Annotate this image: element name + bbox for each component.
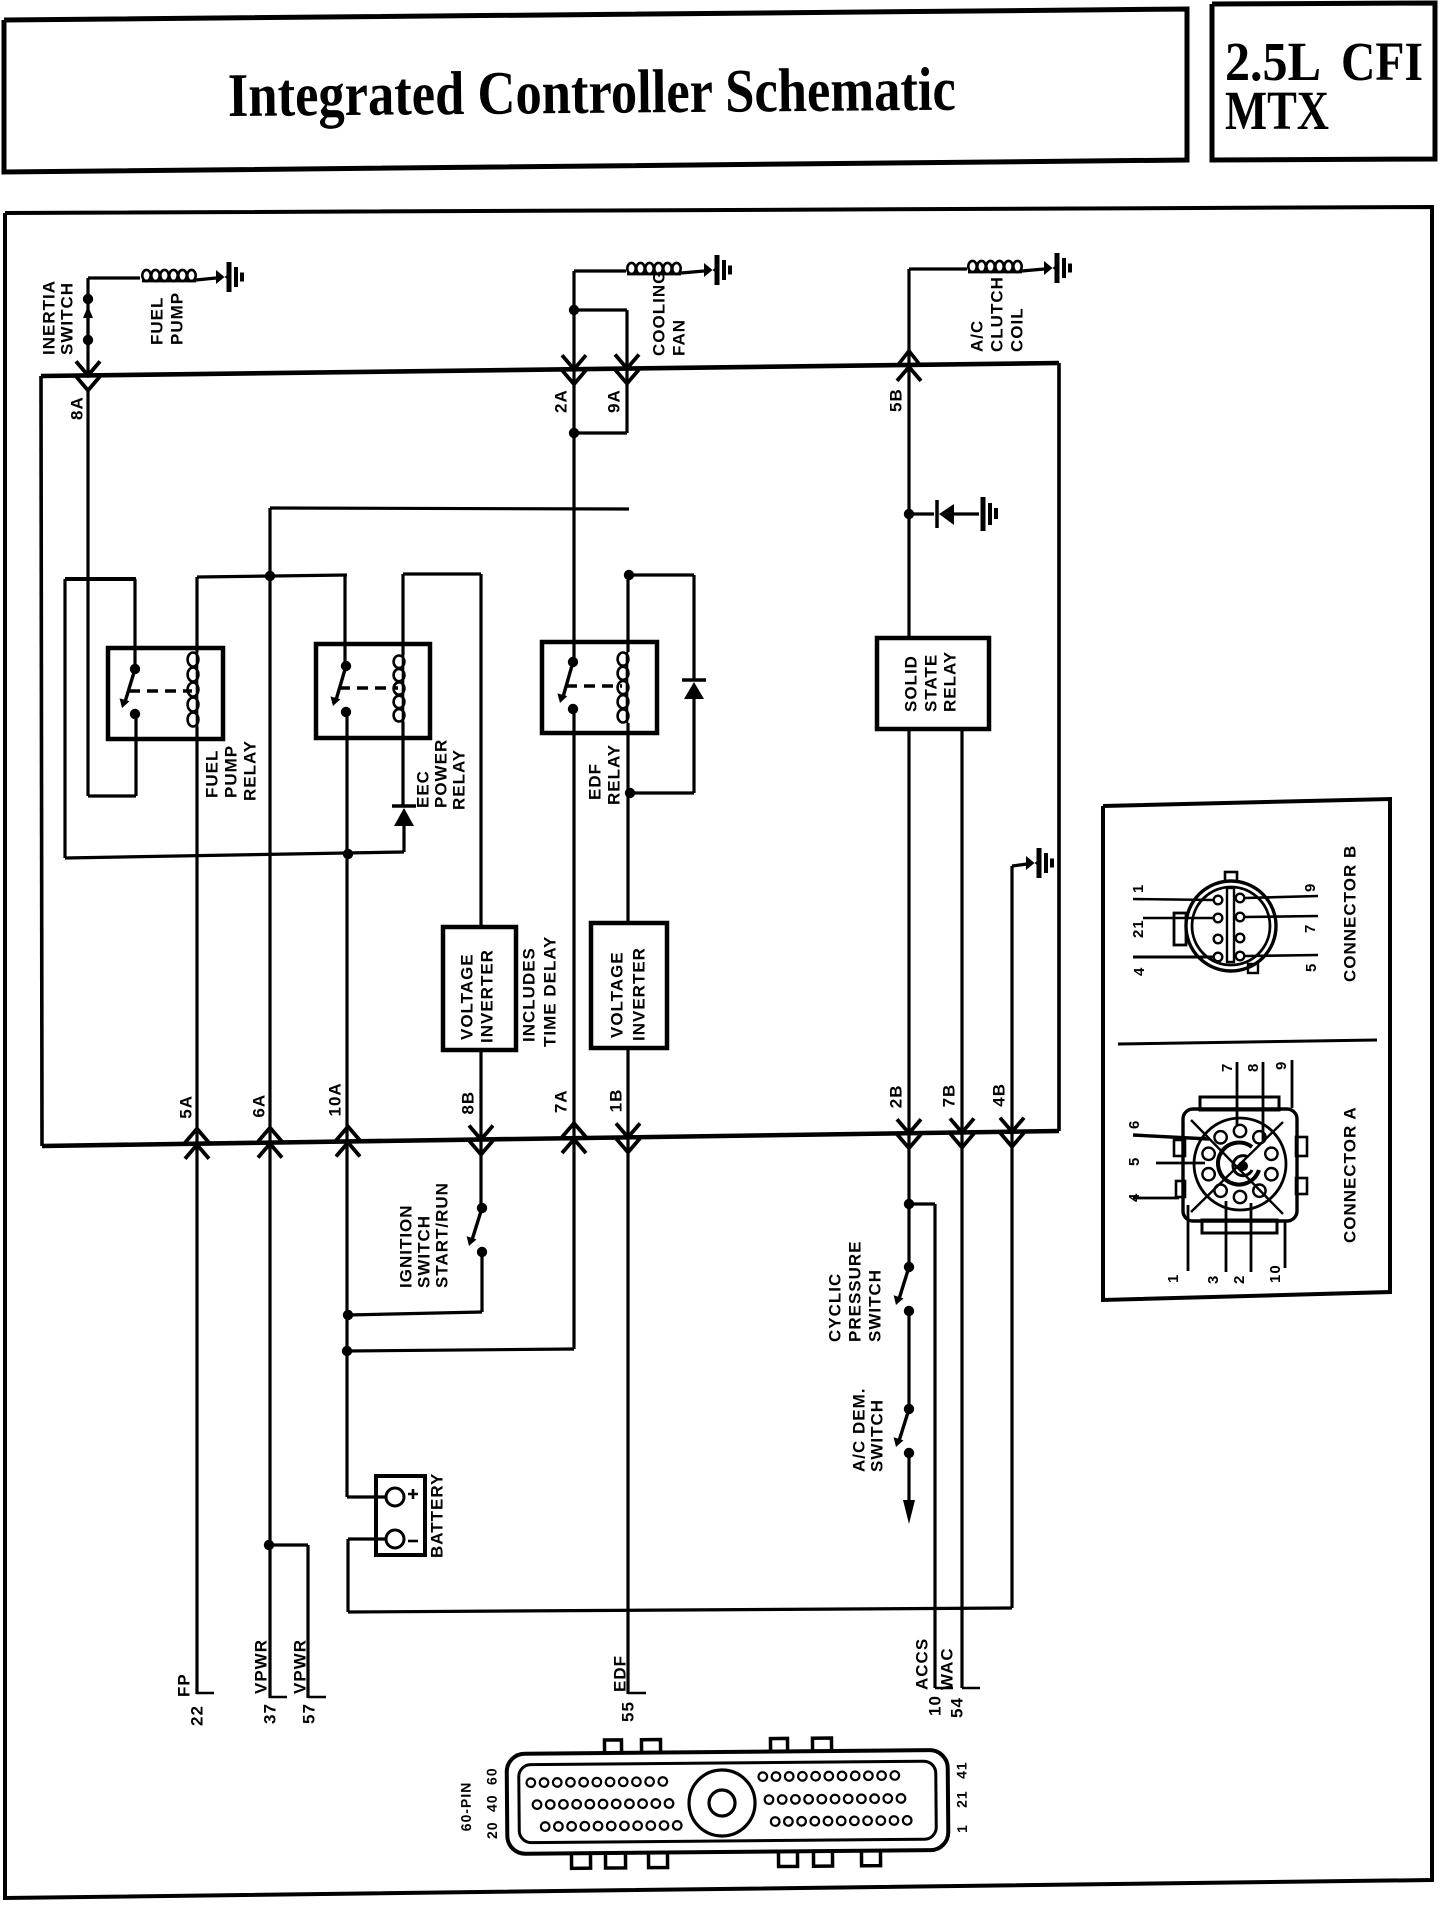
node 8A arrows [76, 361, 100, 375]
node junction ignition-10A [343, 1310, 353, 1320]
svg-text:10: 10 [1267, 1264, 1284, 1283]
connector B key bar [1227, 888, 1234, 962]
svg-text:STATE: STATE [921, 654, 940, 712]
wire EEC coil top riser [401, 574, 404, 655]
connector B bottom notch [1248, 964, 1258, 973]
relay K3 switch [568, 657, 578, 667]
battery box [376, 1476, 425, 1555]
diode D3 [939, 504, 954, 525]
connector A side tabs [1174, 1140, 1185, 1156]
wire inverter2 out 1B EDF [626, 1048, 629, 1694]
wire 5A continue down FP [195, 1144, 198, 1694]
version box [1212, 3, 1435, 160]
svg-text:54: 54 [947, 1697, 966, 1718]
ground diode [981, 497, 986, 531]
wire ignition bottom [480, 1252, 483, 1312]
connector B outer rings [1186, 881, 1276, 971]
title box [4, 9, 1187, 172]
svg-text:Integrated Controller Schemati: Integrated Controller Schematic [228, 56, 957, 130]
node junction EDF coil top [624, 570, 634, 580]
connector B top tab [1225, 872, 1237, 881]
ground fuel pump [216, 270, 227, 284]
connector detail divider [1118, 1040, 1377, 1044]
connector B left tab [1174, 913, 1186, 945]
wire EDF common down 7A [572, 709, 575, 1349]
wire cyclic to a/c demand [907, 1311, 910, 1409]
svg-text:VOLTAGE: VOLTAGE [457, 953, 476, 1040]
ignition switch [477, 1203, 487, 1213]
wire diode bottom link [630, 791, 694, 794]
wire FP coil to bus 5A [195, 727, 198, 1144]
svg-text:21: 21 [1130, 919, 1147, 938]
node 2B arrows [897, 1119, 921, 1133]
svg-text:COIL: COIL [1007, 307, 1026, 352]
svg-text:SWITCH: SWITCH [865, 1269, 884, 1342]
relay K1 dashed link [129, 689, 192, 692]
connector A pins [1234, 1125, 1246, 1137]
svg-text:CYCLIC: CYCLIC [825, 1273, 844, 1342]
node 7B arrows [950, 1118, 974, 1132]
wire net-B to EDF coil horizontal [270, 508, 629, 509]
60-pin connector bottom tabs [571, 1852, 590, 1868]
svg-text:VPWR: VPWR [290, 1639, 309, 1694]
relay K3 coil [618, 653, 629, 666]
wire cooling fan vertical 2A [572, 271, 575, 662]
svg-text:SWITCH: SWITCH [57, 282, 76, 355]
node junction EEC common [343, 849, 353, 859]
relay K2 switch [341, 661, 351, 671]
diode D2 [682, 678, 706, 682]
node junction 7A-10A [342, 1346, 352, 1356]
svg-text:PUMP: PUMP [167, 292, 186, 345]
ground 4B [1026, 856, 1037, 870]
wire net-B horizontal [197, 575, 347, 577]
connector B pin lines left [1133, 899, 1213, 900]
svg-text:IGNITION: IGNITION [396, 1204, 415, 1288]
svg-text:5A: 5A [176, 1095, 195, 1119]
wire EDF coil junction to diode branch [629, 573, 694, 576]
node junction net-B [265, 571, 275, 581]
svg-text:20: 20 [484, 1821, 500, 1839]
relay K3 dashed link [566, 684, 622, 687]
svg-text:1: 1 [954, 1824, 970, 1833]
node junction VPWR split [264, 1540, 274, 1550]
ground cooling fan [704, 263, 715, 277]
cyclic pressure switch [904, 1262, 914, 1272]
wire 2A-9A top link [574, 308, 627, 311]
relay K1 coil [188, 653, 199, 667]
wire 7A to battery link [347, 1349, 574, 1351]
svg-text:TIME DELAY: TIME DELAY [540, 936, 559, 1047]
svg-text:22: 22 [187, 1705, 206, 1726]
svg-text:7: 7 [1219, 1063, 1236, 1072]
node 5A arrows [185, 1129, 209, 1143]
connector A inner spiral [1218, 1143, 1259, 1185]
svg-text:10A: 10A [325, 1082, 344, 1116]
svg-text:9: 9 [1302, 883, 1319, 892]
svg-text:MTX: MTX [1225, 80, 1329, 141]
wire FP coil top [195, 577, 198, 652]
wire FP relay NO loop top [65, 577, 136, 581]
wire net-A left vertical [63, 579, 66, 858]
svg-text:BATTERY: BATTERY [427, 1473, 446, 1558]
wire net-A bottom horizontal [65, 852, 404, 858]
svg-text:FUEL: FUEL [147, 297, 166, 345]
svg-text:POWER: POWER [431, 739, 450, 808]
relay K2 coil [394, 656, 405, 668]
relay K3 EDF relay box [542, 642, 657, 733]
svg-text:1: 1 [1165, 1274, 1182, 1283]
wire coil to ground [1022, 269, 1044, 271]
wire 4B ground link [1012, 864, 1027, 866]
controller box bottom bus [42, 1131, 1059, 1146]
wire battery negative [348, 1537, 386, 1540]
connector B pins [1214, 896, 1223, 905]
node 9A arrows [615, 355, 639, 369]
svg-text:FP: FP [174, 1673, 193, 1697]
svg-text:CONNECTOR B: CONNECTOR B [1340, 845, 1359, 982]
node 10A arrows [336, 1126, 360, 1140]
relay U1 solid state relay box [877, 638, 989, 729]
svg-text:40: 40 [484, 1794, 500, 1812]
node 5B arrows [898, 351, 920, 365]
svg-text:CLUTCH: CLUTCH [987, 276, 1006, 352]
svg-text:EDF: EDF [610, 1655, 629, 1692]
svg-text:RELAY: RELAY [940, 651, 959, 712]
60-pin connector center ring [689, 1770, 756, 1837]
connector detail box [1103, 799, 1390, 1300]
svg-text:57: 57 [299, 1703, 318, 1724]
svg-text:RELAY: RELAY [604, 744, 623, 805]
wire EEC coil top to inverter [403, 572, 481, 575]
svg-text:VPWR: VPWR [251, 1639, 270, 1694]
svg-text:FAN: FAN [669, 319, 688, 356]
connector A cross lines [1191, 1120, 1283, 1214]
svg-text:4B: 4B [989, 1083, 1008, 1107]
wire 2A-9A bottom link [574, 431, 627, 434]
fuel pump coil [142, 270, 150, 281]
svg-text:INCLUDES: INCLUDES [519, 947, 538, 1042]
svg-text:CONNECTOR A: CONNECTOR A [1340, 1106, 1359, 1243]
wire 9A vertical [625, 310, 628, 433]
svg-text:6: 6 [1126, 1120, 1143, 1129]
svg-text:EEC: EEC [413, 770, 432, 808]
connector A top tab [1200, 1097, 1279, 1110]
inertia switch [83, 294, 93, 304]
svg-text:SWITCH: SWITCH [414, 1215, 433, 1288]
wire fuel pump feed [88, 276, 140, 279]
svg-text:2A: 2A [551, 389, 570, 413]
svg-text:START/RUN: START/RUN [432, 1182, 451, 1288]
svg-text:5: 5 [1303, 963, 1320, 972]
battery - terminal [386, 1530, 404, 1548]
relay K1 fuel pump relay box [108, 648, 223, 739]
wire diode to junction [402, 826, 405, 852]
controller box top bus [41, 363, 1059, 376]
svg-text:INVERTER: INVERTER [629, 947, 648, 1041]
wire SSR out 2B [907, 729, 910, 1262]
svg-text:RELAY: RELAY [449, 749, 468, 810]
node junction EDF coil bottom [625, 788, 635, 798]
relay K1 switch [130, 664, 140, 674]
svg-text:INVERTER: INVERTER [477, 949, 496, 1043]
battery + terminal [386, 1488, 404, 1506]
node 8B arrows [469, 1126, 493, 1140]
wire EEC coil bottom to diode [401, 722, 404, 806]
svg-text:4: 4 [1131, 967, 1148, 976]
svg-text:SWITCH: SWITCH [867, 1399, 886, 1472]
wire 4B vertical [1010, 866, 1013, 1608]
svg-text:EDF: EDF [585, 763, 604, 800]
node junction 2A/9A bottom [569, 428, 579, 438]
wire battery positive [347, 1495, 386, 1498]
wire a/c clutch feed [909, 267, 967, 270]
wire battery negative to 4B [348, 1608, 1012, 1612]
svg-text:CFI: CFI [1341, 31, 1423, 92]
svg-text:A/C DEM.: A/C DEM. [849, 1388, 868, 1473]
svg-text:A/C: A/C [967, 320, 986, 352]
svg-text:5: 5 [1126, 1157, 1143, 1166]
svg-text:4: 4 [1126, 1193, 1143, 1202]
svg-text:1B: 1B [606, 1089, 625, 1113]
node 1B arrows [616, 1123, 640, 1137]
svg-text:8A: 8A [67, 396, 86, 420]
svg-text:7B: 7B [939, 1084, 958, 1108]
wire EDF coil top riser [626, 575, 629, 652]
wire diode D2 branch lower [692, 699, 695, 793]
svg-text:VOLTAGE: VOLTAGE [607, 951, 626, 1038]
wire inverter1 out 8B [479, 1050, 482, 1208]
node junction ACCS branch [904, 1199, 914, 1209]
wire EEC common down 10A [345, 712, 348, 1497]
wire 8A to FP common [86, 388, 89, 796]
svg-text:6A: 6A [249, 1094, 268, 1118]
svg-text:21: 21 [954, 1790, 970, 1808]
wire FP NO vertical [133, 579, 136, 669]
svg-text:1: 1 [1130, 884, 1147, 893]
svg-text:9: 9 [1273, 1061, 1290, 1070]
node 6A arrows [258, 1128, 282, 1142]
svg-text:SOLID: SOLID [901, 655, 920, 712]
svg-text:FUEL: FUEL [202, 750, 221, 798]
wire coil to ground [681, 271, 704, 273]
svg-text:8: 8 [1245, 1063, 1262, 1072]
connector A pin lines [1133, 1135, 1209, 1139]
wire a/c demand out arrow [907, 1453, 910, 1502]
svg-text:PRESSURE: PRESSURE [845, 1240, 864, 1342]
60-pin connector body [507, 1750, 949, 1854]
controller box right edge [1057, 363, 1061, 1131]
svg-text:ACCS: ACCS [912, 1638, 931, 1690]
controller box left edge [41, 376, 42, 1146]
connector A body [1183, 1109, 1297, 1221]
a/c demand switch [904, 1404, 914, 1414]
svg-text:INERTIA: INERTIA [39, 280, 58, 355]
node 7A arrows [562, 1123, 586, 1137]
node 4B arrows [1000, 1118, 1024, 1132]
svg-text:3: 3 [1205, 1275, 1222, 1284]
node junction 2A/9A top [569, 305, 579, 315]
wire coil to ground [196, 278, 216, 280]
voltage inverter 1 box [443, 927, 516, 1050]
a/c clutch coil [968, 261, 976, 272]
svg-text:PUMP: PUMP [221, 745, 240, 798]
svg-text:7: 7 [1302, 924, 1319, 933]
svg-text:2B: 2B [886, 1084, 905, 1108]
diode D3 cathode bar [935, 500, 939, 528]
node junction diode branch [904, 509, 914, 519]
ground a/c clutch [1044, 261, 1055, 275]
wire diode D2 branch upper [692, 575, 695, 680]
wire inertia switch vertical [86, 278, 89, 373]
svg-text:5B: 5B [886, 388, 905, 412]
wire EDF coil bottom to inverter2 [626, 723, 629, 923]
diode D1 [392, 804, 416, 808]
wire ACCS branch [909, 1202, 935, 1205]
wire cooling fan feed [574, 269, 626, 272]
svg-text:WAC: WAC [937, 1647, 956, 1690]
connector A bottom tab [1202, 1220, 1277, 1233]
wire 6A vertical [268, 576, 271, 1143]
svg-text:RELAY: RELAY [240, 740, 259, 801]
wire 6A continue down [268, 1143, 271, 1698]
cooling fan coil [627, 263, 635, 274]
svg-text:41: 41 [953, 1761, 969, 1779]
wire VPWR branch [269, 1543, 308, 1546]
node 2A arrows [562, 355, 586, 369]
60-pin connector top tabs [604, 1740, 621, 1754]
connector A outer circle [1194, 1118, 1286, 1210]
wire a/c clutch vertical 5B [907, 269, 910, 638]
svg-text:9A: 9A [604, 389, 623, 413]
wire SSR out 7B [960, 729, 963, 1688]
svg-text:10: 10 [925, 1695, 944, 1716]
wire to diode [909, 512, 934, 515]
voltage inverter 2 box [591, 923, 667, 1048]
wire FP common down [134, 714, 137, 796]
relay K2 dashed link [339, 686, 398, 689]
svg-text:55: 55 [618, 1701, 637, 1722]
svg-text:60-PIN: 60-PIN [458, 1782, 474, 1832]
connector B pin lines right [1245, 896, 1318, 898]
relay K2 EEC power relay box [316, 644, 430, 738]
60-pin connector pins [527, 1778, 536, 1787]
wire net-B riser [268, 508, 271, 576]
svg-text:7A: 7A [551, 1089, 570, 1113]
svg-text:8B: 8B [458, 1091, 477, 1115]
svg-text:2: 2 [1231, 1275, 1248, 1284]
svg-text:37: 37 [260, 1703, 279, 1724]
wire diode to ground [954, 512, 979, 515]
wire EEC NO vertical [343, 576, 346, 666]
svg-text:60: 60 [483, 1767, 499, 1785]
svg-text:COOLING: COOLING [649, 270, 668, 356]
